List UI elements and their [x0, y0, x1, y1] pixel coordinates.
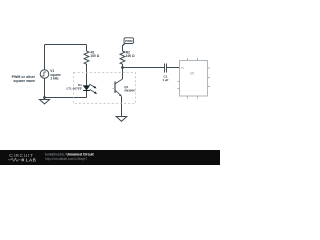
svg-text:LAB: LAB: [26, 158, 37, 163]
svg-text:1 kHz: 1 kHz: [50, 76, 59, 80]
svg-text:funkathustra / Unnamed Circuit: funkathustra / Unnamed Circuit: [45, 152, 94, 156]
svg-text:1 µF: 1 µF: [162, 78, 168, 82]
svg-text:PWM: PWM: [125, 39, 133, 43]
svg-text:square wave: square wave: [13, 79, 35, 83]
svg-text:LTL-307EE: LTL-307EE: [67, 87, 82, 91]
svg-text:U5: U5: [190, 72, 194, 76]
svg-text:100 Ω: 100 Ω: [91, 54, 100, 58]
svg-text:P1: P1: [181, 66, 185, 70]
svg-text:http://circuitlab.com/c/hbqb7: http://circuitlab.com/c/hbqb7: [45, 157, 87, 161]
svg-text:100 Ω: 100 Ω: [126, 54, 135, 58]
svg-text:2N3906: 2N3906: [124, 89, 135, 93]
